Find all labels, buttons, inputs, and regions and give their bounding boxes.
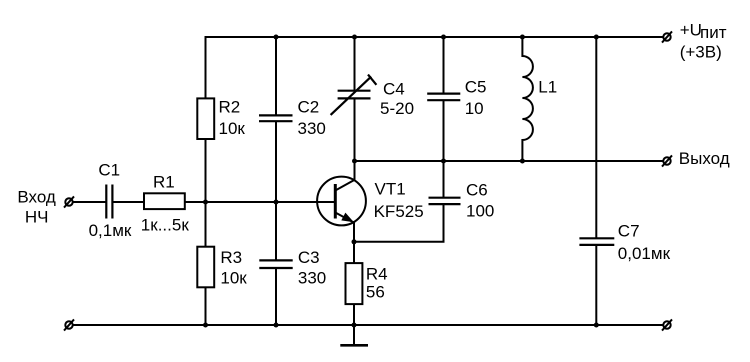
wire C1 to R1 bbox=[112, 201, 144, 203]
wire emitter to C6 bbox=[354, 241, 445, 243]
wire base wire to C3 bbox=[275, 202, 277, 260]
wire C7 branch upper bbox=[595, 36, 597, 238]
transistor VT1 collector stroke bbox=[335, 180, 354, 191]
capacitor C5 bbox=[427, 94, 460, 101]
wire C3 to ground rail bbox=[275, 268, 277, 326]
wire C5 branch upper bbox=[443, 36, 445, 94]
svg-text:100: 100 bbox=[466, 201, 494, 220]
svg-text:R4: R4 bbox=[366, 265, 388, 284]
resistor R3 bbox=[197, 247, 214, 288]
svg-text:R2: R2 bbox=[219, 98, 241, 117]
capacitor C4 trimmer bbox=[331, 75, 377, 115]
wire C6 top lead bbox=[443, 161, 445, 198]
transistor VT1 base bar bbox=[334, 184, 337, 219]
capacitor C6 bbox=[429, 198, 461, 204]
wire C4 branch upper bbox=[354, 36, 356, 91]
wire C5 bottom to output rail bbox=[443, 100, 445, 161]
terminal input bbox=[65, 198, 72, 205]
svg-text:C1: C1 bbox=[98, 160, 120, 179]
node top rail / L1 bbox=[520, 35, 525, 40]
transistor VT1 emitter stroke bbox=[335, 213, 354, 223]
svg-text:10к: 10к bbox=[220, 269, 247, 288]
wire R1 to transistor base bbox=[185, 201, 335, 203]
wire top supply rail bbox=[205, 36, 663, 38]
svg-text:C2: C2 bbox=[298, 98, 320, 117]
svg-text:5-20: 5-20 bbox=[380, 99, 414, 118]
node output rail / C6 bbox=[441, 159, 446, 164]
node ground rail / C7 bbox=[594, 323, 599, 328]
svg-text:C3: C3 bbox=[298, 248, 320, 267]
node ground rail / R3 bbox=[203, 323, 208, 328]
svg-text:1к...5к: 1к...5к bbox=[141, 216, 190, 235]
wire C7 bottom to ground rail bbox=[595, 245, 597, 326]
inductor L1 bbox=[522, 36, 533, 161]
node top rail / C7 bbox=[594, 35, 599, 40]
wire C4 bottom to output rail bbox=[354, 98, 356, 161]
wire output rail bbox=[355, 160, 663, 162]
terminal bottom right bbox=[663, 321, 670, 328]
wire bottom ground rail bbox=[73, 324, 663, 326]
resistor R2 bbox=[197, 98, 214, 139]
wire input terminal to C1 bbox=[73, 201, 106, 203]
node output rail / collector bbox=[352, 159, 357, 164]
resistor R1 bbox=[144, 193, 185, 209]
svg-text:+U: +U bbox=[680, 21, 702, 40]
svg-text:0,1мк: 0,1мк bbox=[89, 221, 132, 240]
svg-text:10к: 10к bbox=[219, 119, 246, 138]
node base / C2 C3 bbox=[274, 200, 279, 205]
svg-text:L1: L1 bbox=[538, 77, 557, 96]
svg-text:НЧ: НЧ bbox=[25, 207, 49, 226]
svg-text:0,01мк: 0,01мк bbox=[618, 244, 671, 263]
wire R2 bottom to base node bbox=[205, 138, 207, 202]
terminal output bbox=[663, 157, 670, 164]
wire R4 bottom to ground rail bbox=[353, 304, 355, 326]
svg-text:330: 330 bbox=[298, 119, 326, 138]
svg-text:56: 56 bbox=[366, 283, 385, 302]
svg-text:330: 330 bbox=[298, 269, 326, 288]
node ground rail / C3 bbox=[274, 323, 279, 328]
capacitor C1 bbox=[106, 185, 112, 219]
terminal +U bbox=[663, 33, 670, 40]
svg-text:C7: C7 bbox=[618, 222, 640, 241]
capacitor C7 bbox=[579, 238, 614, 245]
wire C2 branch upper bbox=[275, 36, 277, 115]
wire emitter lead down to R4 bbox=[353, 222, 355, 264]
svg-text:C6: C6 bbox=[466, 181, 488, 200]
svg-text:10: 10 bbox=[465, 99, 484, 118]
capacitor C2 bbox=[259, 115, 293, 121]
ground symbol bbox=[353, 325, 355, 344]
svg-text:Вход: Вход bbox=[17, 187, 56, 206]
svg-text:R1: R1 bbox=[153, 173, 175, 192]
terminal bottom left bbox=[65, 321, 72, 328]
svg-text:Выход: Выход bbox=[679, 149, 730, 168]
svg-text:C5: C5 bbox=[465, 78, 487, 97]
transistor VT1 circle bbox=[317, 177, 366, 226]
transistor VT1 emitter arrow bbox=[341, 213, 354, 223]
svg-text:(+3В): (+3В) bbox=[680, 42, 722, 61]
resistor R4 bbox=[346, 263, 363, 304]
node output rail / L1 bbox=[520, 159, 525, 164]
wire R3 bottom to ground rail bbox=[205, 286, 207, 326]
wire C6 bottom lead bbox=[443, 204, 445, 242]
node emitter bbox=[352, 239, 357, 244]
wire R2 branch upper bbox=[205, 36, 207, 99]
node top rail / C2 bbox=[274, 35, 279, 40]
svg-text:VT1: VT1 bbox=[375, 180, 406, 199]
svg-text:KF525: KF525 bbox=[374, 202, 424, 221]
node base / R2 R3 bbox=[203, 200, 208, 205]
wire base node to R3 top bbox=[205, 202, 207, 248]
svg-text:пит: пит bbox=[700, 23, 727, 42]
node top rail / C5 bbox=[441, 35, 446, 40]
node ground rail / R4 bbox=[352, 323, 357, 328]
svg-text:C4: C4 bbox=[383, 79, 405, 98]
wire collector lead bbox=[354, 161, 356, 181]
wire C2 to base wire bbox=[275, 121, 277, 202]
svg-text:R3: R3 bbox=[220, 248, 242, 267]
capacitor C3 bbox=[259, 260, 292, 268]
node top rail / C4 bbox=[352, 35, 357, 40]
